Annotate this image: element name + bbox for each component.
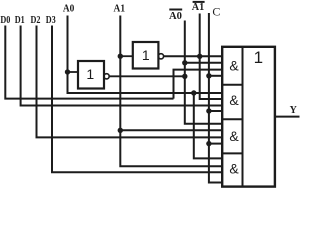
wire C to AND3: [209, 143, 222, 145]
svg-text:A1: A1: [192, 2, 205, 13]
wire A1 branch to AND3: [120, 129, 222, 131]
junction A1 branch to AND3: [118, 128, 123, 133]
junction A0 to inverter input: [65, 69, 70, 74]
svg-text:D1: D1: [15, 15, 25, 26]
svg-text:&: &: [229, 57, 239, 73]
svg-text:D2: D2: [31, 15, 41, 26]
svg-text:&: &: [229, 92, 239, 108]
svg-text:A1: A1: [114, 3, 126, 14]
wire A0bar vertical down to AND3: [185, 21, 222, 124]
wire A0 inverter input: [68, 71, 79, 73]
wire A1 vertical down to corner: [120, 16, 222, 167]
AND-OR block internal divider vertical: [242, 47, 244, 187]
svg-text:Y: Y: [290, 105, 298, 116]
wire D0 vertical and run to riser: [5, 26, 173, 99]
wire A1bar from inverter to AND1: [164, 55, 222, 57]
inverter U2 output bubble: [158, 54, 163, 59]
junction A0bar to AND1: [182, 60, 187, 65]
wire A1 inverter input: [120, 55, 133, 57]
wire A1bar vertical down to AND2: [200, 14, 222, 100]
svg-text:&: &: [229, 128, 239, 144]
wire D0 riser up to gate: [174, 70, 223, 99]
svg-text:A0: A0: [169, 11, 182, 22]
overline A1bar: [193, 1, 205, 3]
svg-text:C: C: [212, 5, 220, 19]
junction C to AND3: [206, 141, 211, 146]
svg-text:D0: D0: [0, 15, 10, 26]
wire D1 vertical and run to AND2: [21, 26, 222, 106]
wire A0 vertical down to corner: [68, 16, 223, 94]
inverter U1 (A0) box: [78, 61, 104, 89]
wire D3 vertical and run to AND4: [52, 26, 222, 173]
junction A1 to inverter input: [118, 54, 123, 59]
svg-text:&: &: [229, 160, 239, 176]
wire A0bar to AND1: [185, 62, 222, 64]
wire C to AND2: [209, 110, 222, 112]
junction A0bar output joins vertical: [182, 74, 187, 79]
svg-text:A0: A0: [63, 3, 75, 14]
wire output Y: [275, 116, 300, 118]
svg-text:1: 1: [86, 66, 94, 82]
wire A0 drop to AND4: [194, 93, 222, 158]
junction A1bar label line joins: [197, 54, 202, 59]
AND-OR block U3 outline: [222, 47, 275, 187]
junction C to AND1: [206, 73, 211, 78]
wire D2 vertical and run to AND3: [37, 26, 223, 138]
wire C vertical down to AND4: [209, 13, 223, 183]
AND cell divider 2: [222, 118, 243, 120]
wire C to AND1: [209, 75, 222, 77]
AND cell divider 1: [222, 84, 243, 86]
svg-text:1: 1: [142, 47, 150, 63]
junction C to AND2: [206, 108, 211, 113]
inverter U2 (A1) box: [133, 42, 159, 69]
svg-text:1: 1: [254, 48, 263, 67]
overline A0bar: [169, 9, 182, 11]
AND cell divider 3: [222, 152, 243, 154]
junction A0 branch down: [191, 90, 196, 95]
wire A0bar from inverter to A0bar vertical: [109, 75, 185, 77]
svg-text:D3: D3: [46, 15, 56, 26]
inverter U1 output bubble: [104, 74, 109, 79]
